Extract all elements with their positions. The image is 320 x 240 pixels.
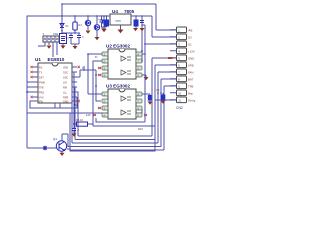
- star junction: [43, 146, 47, 150]
- connector CN2: [170, 27, 187, 110]
- svg-text:LLL: LLL: [63, 92, 68, 95]
- svg-text:5V: 5V: [74, 104, 77, 107]
- svg-text:OSC: OSC: [63, 72, 68, 75]
- U2 left pin red x: [98, 67, 101, 76]
- svg-text:U4: U4: [112, 9, 118, 14]
- svg-text:IFB: IFB: [39, 101, 43, 104]
- wire loop B to U3: [27, 108, 142, 113]
- transistor Q1: [48, 134, 67, 156]
- svg-text:FAN: FAN: [188, 71, 193, 75]
- wire loop around U1: [30, 97, 77, 108]
- wire bottom bus: [62, 79, 176, 147]
- svg-text:TX: TX: [39, 72, 42, 75]
- wire border rail B: [27, 16, 176, 148]
- IC U3 EG3002: [106, 84, 136, 120]
- resistor R6: [73, 118, 93, 126]
- wire U2 left pin2: [93, 61, 102, 126]
- svg-text:5Vreg: 5Vreg: [188, 99, 196, 103]
- svg-text:SST: SST: [39, 77, 44, 80]
- svg-text:RX: RX: [39, 67, 43, 70]
- capacitor C1: [98, 15, 107, 27]
- capacitor C9: [156, 88, 166, 104]
- svg-text:R1: R1: [79, 23, 83, 27]
- svg-text:C: C: [82, 36, 84, 39]
- svg-text:G1: G1: [188, 43, 192, 47]
- capacitor C11: [77, 33, 84, 44]
- capacitor C4: [140, 15, 145, 31]
- crystal X1: [60, 34, 70, 49]
- svg-text:7805: 7805: [124, 9, 135, 14]
- U3 pin stubs: [102, 92, 142, 117]
- svg-text:C: C: [78, 129, 80, 132]
- svg-text:U1: U1: [35, 57, 41, 62]
- capacitor C8: [72, 124, 80, 137]
- svg-text:Rsp: Rsp: [188, 92, 193, 96]
- svg-text:VFB: VFB: [188, 64, 194, 68]
- U2 pin stubs: [102, 52, 142, 77]
- svg-text:BAT: BAT: [188, 78, 194, 82]
- wire U2 right pins: [142, 54, 146, 75]
- svg-text:RIN: RIN: [63, 87, 67, 90]
- svg-text:IN: IN: [95, 56, 98, 59]
- diode D2: [85, 16, 90, 34]
- wire U1 net row: [27, 82, 33, 92]
- svg-text:OSC: OSC: [63, 77, 68, 80]
- wire U4 output: [131, 16, 142, 61]
- svg-text:VVV: VVV: [39, 97, 44, 100]
- svg-text:G2: G2: [188, 36, 192, 40]
- svg-text:GND: GND: [63, 101, 69, 104]
- ground under CN1 pin2: [47, 46, 52, 49]
- svg-text:VDD: VDD: [63, 67, 68, 70]
- svg-text:PWM: PWM: [39, 82, 45, 85]
- svg-text:GND: GND: [188, 57, 194, 61]
- svg-text:FRQ: FRQ: [39, 92, 44, 95]
- svg-text:12V: 12V: [86, 113, 91, 117]
- svg-text:CN1: CN1: [53, 32, 59, 36]
- wire loops under U3: [93, 25, 176, 126]
- power flag GND pin: [168, 57, 174, 59]
- svg-text:TFB: TFB: [39, 87, 44, 90]
- capacitor C3 electrolytic: [133, 15, 139, 31]
- IC U1 EG8010: [35, 57, 72, 103]
- wire node to U3: [96, 70, 101, 101]
- svg-text:CN2: CN2: [176, 106, 183, 110]
- svg-text:7805: 7805: [115, 19, 121, 23]
- wire bottom border: [27, 100, 176, 151]
- svg-text:TFB: TFB: [188, 85, 193, 89]
- svg-text:RRR: RRR: [63, 97, 68, 100]
- capacitor C7 near U3: [142, 94, 153, 105]
- wire top rail A: [62, 4, 176, 30]
- svg-text:C9: C9: [156, 88, 160, 92]
- wire U1 right jogs: [55, 70, 96, 143]
- wire caps join: [71, 44, 79, 46]
- rail junction dots: [74, 15, 75, 16]
- capacitor C2 electrolytic: [102, 15, 110, 32]
- svg-text:R6 1K: R6 1K: [76, 118, 83, 122]
- connector CN1: [43, 32, 59, 42]
- resistor R1: [73, 16, 83, 33]
- capacitor C5: [65, 33, 73, 44]
- svg-text:IFB: IFB: [188, 29, 192, 33]
- U1 right pins: [63, 67, 77, 104]
- svg-text:C: C: [65, 36, 67, 39]
- svg-text:R10: R10: [138, 127, 143, 131]
- wire col70: [69, 113, 71, 147]
- diode D1: [60, 22, 69, 34]
- U1 left pins: [33, 67, 45, 104]
- U3 left pin red x: [93, 107, 101, 116]
- svg-text:LIN: LIN: [63, 82, 67, 85]
- transistor Q2: [94, 16, 105, 40]
- svg-text:Q1: Q1: [53, 137, 57, 141]
- wire R1 bottom: [62, 32, 80, 34]
- IC U2 EG3002: [106, 44, 136, 80]
- regulator U4 7805: [110, 9, 135, 33]
- capacitor C6: [102, 16, 107, 32]
- svg-text:U3 EG3002: U3 EG3002: [106, 84, 130, 89]
- ground U2: [145, 75, 147, 77]
- wire CN1 pins: [38, 42, 57, 57]
- U3 right red x: [144, 114, 147, 116]
- svg-text:U2 EG3002: U2 EG3002: [106, 44, 130, 49]
- wire U3 left pin1: [84, 54, 102, 94]
- svg-text:EG8010: EG8010: [48, 57, 65, 62]
- svg-text:+12V: +12V: [188, 50, 195, 54]
- CN2 labels: [188, 29, 196, 103]
